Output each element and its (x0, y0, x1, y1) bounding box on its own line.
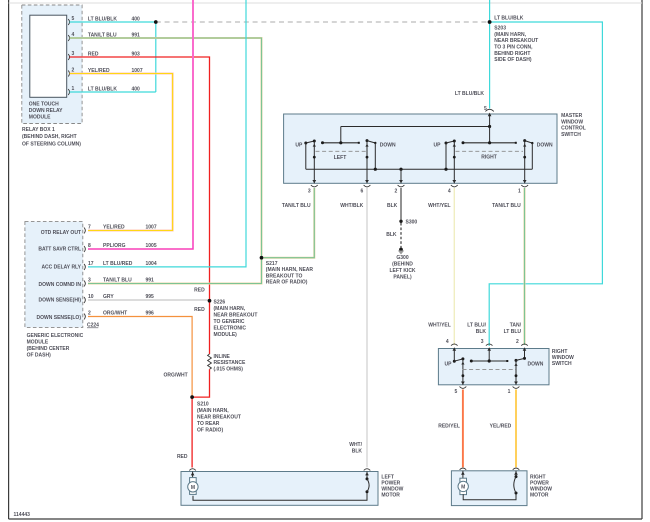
node S217 (260, 256, 314, 286)
right switch common bar (470, 359, 509, 362)
svg-text:1: 1 (72, 86, 75, 92)
resistor inline resistance .015 ohms (208, 354, 246, 372)
wire LT BLU/BLK 400 relay pin5 (70, 21, 156, 23)
svg-text:1: 1 (518, 189, 521, 195)
GEM dashed enclosure (25, 222, 99, 359)
wire RED S210 to left motor (191, 397, 193, 467)
node S203 (488, 16, 538, 64)
svg-text:UP: UP (434, 142, 442, 148)
svg-text:5: 5 (455, 389, 458, 395)
svg-text:4: 4 (448, 189, 451, 195)
wire LT BLU/BLK from offpage top to master pin5 (489, 0, 491, 109)
svg-text:GRY: GRY (103, 294, 114, 300)
MASTER WINDOW CONTROL SWITCH box (284, 113, 586, 183)
master left switch UP contact (295, 140, 315, 170)
master left switch DOWN contact (366, 139, 397, 169)
svg-text:3: 3 (308, 189, 311, 195)
svg-text:DOWN SENSE(HI): DOWN SENSE(HI) (39, 298, 82, 304)
node S226 (194, 288, 257, 338)
master pin 4 internal leg (453, 141, 456, 183)
GEM pin 3 DOWN COMND IN (39, 278, 155, 288)
master pin 3 internal leg (313, 141, 316, 183)
svg-text:MOTOR: MOTOR (530, 493, 549, 499)
svg-text:TO GENERIC: TO GENERIC (214, 319, 245, 325)
right switch pin 5 internal leg (461, 359, 464, 385)
svg-text:MASTER: MASTER (561, 113, 583, 119)
relay pin 4 (68, 32, 140, 41)
svg-text:WINDOW: WINDOW (561, 119, 583, 125)
svg-text:MODULE: MODULE (27, 340, 49, 346)
GEM pin 8 BATT SAVR CTRL (38, 243, 156, 252)
right switch UP contact (445, 357, 465, 367)
relay pin 5 (68, 16, 140, 25)
wire RED 903 relay pin3 to S226 (70, 57, 210, 301)
svg-text:BATT SAVR CTRL: BATT SAVR CTRL (38, 247, 81, 253)
svg-text:1005: 1005 (146, 243, 157, 249)
svg-text:ACC DELAY RLY: ACC DELAY RLY (41, 264, 81, 270)
svg-text:OF DASH): OF DASH) (27, 353, 51, 359)
master pin 6 internal leg (365, 141, 368, 184)
svg-text:UP: UP (445, 362, 453, 368)
RIGHT POWER WINDOW MOTOR box (451, 471, 552, 506)
svg-text:BLK: BLK (476, 329, 487, 335)
node S210 (164, 373, 241, 434)
svg-text:1: 1 (508, 389, 511, 395)
svg-text:TAN/: TAN/ (510, 323, 522, 329)
svg-text:TAN/LT BLU: TAN/LT BLU (103, 278, 132, 284)
svg-text:BLK: BLK (386, 232, 397, 238)
master internal feed bus from pin5 (341, 125, 491, 143)
master right switch UP contact (434, 140, 456, 170)
svg-text:1004: 1004 (146, 261, 157, 267)
GEM pin 17 ACC DELAY RLY (41, 261, 156, 270)
svg-text:5: 5 (72, 16, 75, 22)
svg-text:991: 991 (146, 278, 155, 284)
svg-text:RESISTANCE: RESISTANCE (214, 360, 247, 366)
right switch pin 2 entry connector (521, 344, 528, 358)
svg-text:WHT/YEL: WHT/YEL (428, 323, 451, 329)
svg-text:LT BLU/RED: LT BLU/RED (103, 261, 133, 267)
svg-text:OF STEERING COLUMN): OF STEERING COLUMN) (22, 141, 81, 147)
svg-text:6: 6 (361, 189, 364, 195)
svg-text:PPL/ORG: PPL/ORG (103, 243, 126, 249)
GEM pin 2 DOWN SENSE(LO) (37, 311, 155, 321)
svg-text:7: 7 (88, 225, 91, 231)
svg-text:(MAIN HARN,: (MAIN HARN, (197, 408, 229, 414)
svg-text:NEAR BREAKOUT: NEAR BREAKOUT (197, 415, 241, 421)
wire YEL/RED 1007 relay pin2 to GEM pin7 (70, 74, 173, 231)
svg-text:YEL/RED: YEL/RED (103, 225, 125, 231)
svg-text:BEHIND RIGHT: BEHIND RIGHT (494, 51, 530, 57)
svg-text:UP: UP (295, 142, 303, 148)
right motor redyel entry connector (460, 468, 467, 478)
svg-text:DOWN: DOWN (528, 362, 544, 368)
svg-text:(.015 OHMS): (.015 OHMS) (214, 366, 244, 372)
node S217 junction dot redraw (260, 256, 264, 260)
svg-text:RED: RED (194, 288, 205, 294)
svg-text:RIGHT: RIGHT (481, 155, 497, 161)
svg-text:(MAIN HARN,: (MAIN HARN, (214, 306, 246, 312)
RIGHT WINDOW SWITCH box (438, 349, 574, 385)
svg-text:S300: S300 (406, 219, 418, 225)
right switch pin 1 exit connector (508, 382, 520, 395)
wire GRY 995 GEM pin10 to S226 (88, 299, 210, 301)
svg-text:BREAKOUT TO: BREAKOUT TO (266, 273, 303, 279)
svg-text:1007: 1007 (146, 225, 157, 231)
svg-text:DOWN: DOWN (380, 142, 396, 148)
svg-text:(BEHIND DASH, RIGHT: (BEHIND DASH, RIGHT (22, 134, 77, 140)
svg-text:CONTROL: CONTROL (561, 126, 586, 132)
right motor internal wiring (463, 475, 517, 500)
svg-text:SWITCH: SWITCH (552, 361, 572, 367)
svg-text:10: 10 (88, 294, 94, 300)
wire dashed continuation of circuit 400 (156, 21, 490, 23)
wire LT BLU/BLK 400 vertical tie pin5-pin1 (155, 22, 157, 92)
svg-text:LT BLU/: LT BLU/ (467, 323, 486, 329)
right switch labels above pins (428, 323, 521, 346)
svg-text:995: 995 (146, 294, 155, 300)
svg-text:DOWN SENSE(LO): DOWN SENSE(LO) (37, 315, 82, 321)
svg-text:RED: RED (194, 307, 205, 313)
node S203 junction dot redraw (488, 20, 492, 24)
svg-text:(MAIN HARN,: (MAIN HARN, (494, 32, 526, 38)
svg-text:GENERIC ELECTRONIC: GENERIC ELECTRONIC (27, 333, 84, 339)
svg-text:RELAY BOX 1: RELAY BOX 1 (22, 127, 55, 133)
right switch pin 1 internal leg (514, 360, 517, 384)
svg-text:M: M (191, 485, 195, 491)
svg-text:INLINE: INLINE (214, 354, 231, 360)
svg-text:(BEHIND: (BEHIND (392, 262, 413, 268)
svg-text:LT BLU: LT BLU (504, 329, 522, 335)
svg-text:TO 3 PIN CONN,: TO 3 PIN CONN, (494, 45, 533, 51)
master pin 2 exit connector (387, 180, 404, 209)
wire WHT/BLK master pin6 to left motor (366, 188, 368, 467)
svg-text:MODULE: MODULE (29, 115, 51, 121)
wire TAN/LT BLU 991 relay pin4 to S217 (70, 38, 262, 258)
ground G300 (389, 248, 415, 281)
svg-text:MODULE): MODULE) (214, 332, 238, 338)
RELAY BOX 1 dashed enclosure (22, 5, 82, 124)
svg-text:S226: S226 (214, 299, 226, 305)
svg-text:LEFT: LEFT (334, 155, 347, 161)
svg-text:TAN/LT BLU: TAN/LT BLU (282, 203, 311, 209)
wire RED/YEL right switch pin5 to right motor (462, 390, 464, 468)
left motor M1 symbol (188, 478, 198, 495)
svg-text:WHT/BLK: WHT/BLK (340, 203, 363, 209)
svg-text:G300: G300 (396, 255, 408, 261)
svg-text:M: M (461, 485, 465, 491)
wire ORG/WHT 996 GEM pin2 to S210 (88, 317, 192, 398)
right switch mechanical link (463, 369, 517, 371)
svg-text:MOTOR: MOTOR (381, 493, 400, 499)
right switch pin 5 exit connector (455, 382, 467, 395)
master pin 5 entry connector (485, 109, 493, 126)
left motor internal wiring (193, 477, 369, 500)
right switch pin 3 entry connector (486, 344, 493, 361)
master right switch mechanical link (456, 151, 524, 160)
svg-text:3: 3 (481, 339, 484, 345)
master pin 6 exit connector (340, 180, 370, 209)
wire LT BLU/RED 1004 GEM pin17 going offpage top (88, 0, 246, 267)
master pin 1 internal leg (523, 141, 526, 184)
wire LT BLU/BLK 400 relay pin1 (70, 91, 156, 93)
wire BLK dashed S300 to G300 (400, 223, 402, 248)
right motor M2 symbol (458, 478, 468, 494)
svg-text:BLK: BLK (387, 203, 398, 209)
svg-text:NEAR BREAKOUT: NEAR BREAKOUT (494, 38, 538, 44)
svg-text:3: 3 (88, 278, 91, 284)
svg-text:REAR OF RADIO): REAR OF RADIO) (266, 280, 308, 286)
master ground bus (306, 168, 533, 171)
master right switch DOWN contact (523, 139, 553, 169)
right switch pin 4 entry connector (451, 344, 458, 361)
relay pin 3 (68, 51, 140, 60)
wire WHT/YEL master pin4 to right switch pin4 (453, 188, 455, 345)
svg-text:SIDE OF DASH): SIDE OF DASH) (494, 57, 532, 63)
svg-text:114443: 114443 (14, 512, 31, 518)
svg-text:4: 4 (446, 339, 449, 345)
master left switch mechanical link (316, 151, 367, 161)
right motor yelred entry connector (513, 468, 520, 477)
svg-text:LT BLU/BLK: LT BLU/BLK (494, 16, 523, 22)
svg-text:NEAR BREAKOUT: NEAR BREAKOUT (214, 312, 258, 318)
svg-text:(MAIN HARN, NEAR: (MAIN HARN, NEAR (266, 267, 314, 273)
GEM pin 7 OTD RELAY OUT (41, 225, 157, 236)
svg-text:2: 2 (88, 311, 91, 317)
svg-text:2: 2 (516, 339, 519, 345)
svg-text:TAN/LT BLU: TAN/LT BLU (492, 203, 521, 209)
svg-text:(BEHIND CENTER: (BEHIND CENTER (27, 346, 70, 352)
svg-text:SWITCH: SWITCH (561, 132, 581, 138)
master pin 3 exit connector (282, 180, 318, 209)
GEM pin 10 DOWN SENSE(HI) (39, 294, 155, 303)
svg-text:S203: S203 (494, 26, 506, 32)
relay pin 2 (68, 67, 143, 76)
master pin 2 internal leg (400, 169, 402, 183)
wire YEL/RED right switch pin1 to right motor (515, 390, 517, 468)
svg-text:OF RADIO): OF RADIO) (197, 428, 223, 434)
node splice on wire 400 (154, 20, 158, 24)
node splice 400 dot redraw (154, 20, 158, 24)
svg-text:8: 8 (88, 243, 91, 249)
one touch down relay module K1 (22, 15, 81, 147)
svg-text:TO REAR: TO REAR (197, 421, 220, 427)
LEFT POWER WINDOW MOTOR box (181, 472, 404, 506)
svg-text:3: 3 (72, 51, 75, 57)
svg-text:DOWN: DOWN (537, 142, 553, 148)
master right switch common bar (462, 141, 517, 144)
left motor whtblk entry connector (364, 469, 371, 479)
svg-text:2: 2 (395, 189, 398, 195)
svg-text:LT BLU/BLK: LT BLU/BLK (455, 91, 484, 97)
wire LT BLU/BLK S203 branch to right window switch pin3 (489, 22, 602, 346)
wire TAN/LT BLU 991 GEM pin3 to S217 (88, 258, 262, 284)
master pin 1 exit connector (492, 180, 528, 209)
svg-text:YEL/RED: YEL/RED (490, 423, 512, 429)
wire RED resistor to S210 (192, 369, 209, 397)
master pin 4 exit connector (428, 180, 458, 209)
svg-text:S210: S210 (197, 402, 209, 408)
node S300 (386, 219, 417, 238)
svg-text:WHT/: WHT/ (349, 442, 362, 448)
right switch DOWN contact (515, 357, 544, 368)
svg-text:ORG/WHT: ORG/WHT (103, 311, 127, 317)
svg-text:RED/YEL: RED/YEL (438, 423, 460, 429)
wire TAN/LT BLU master pin1 to right switch pin2 (524, 188, 526, 345)
svg-text:RIGHT: RIGHT (530, 474, 546, 480)
wire PPL/ORG 1005 GEM pin8 going offpage top (88, 0, 193, 249)
wire RED S226 down to resistor (209, 301, 211, 354)
svg-text:DOWN COMND IN: DOWN COMND IN (39, 282, 82, 288)
svg-text:LEFT KICK: LEFT KICK (389, 268, 415, 274)
svg-text:OTD RELAY OUT: OTD RELAY OUT (41, 230, 81, 236)
node S210 junction dot redraw (190, 395, 194, 399)
svg-text:ORG/WHT: ORG/WHT (164, 373, 188, 379)
wire BLK master pin2 to S300 (400, 188, 402, 221)
svg-text:17: 17 (88, 261, 94, 267)
relay pin 1 (68, 86, 140, 95)
svg-text:S217: S217 (266, 261, 278, 267)
master left switch common bar (321, 141, 360, 144)
svg-text:ONE TOUCH: ONE TOUCH (29, 101, 59, 107)
svg-text:RED: RED (177, 454, 188, 460)
node S226 junction dot redraw (208, 299, 212, 303)
svg-text:DOWN RELAY: DOWN RELAY (29, 108, 63, 114)
svg-text:ELECTRONIC: ELECTRONIC (214, 326, 247, 332)
wire TAN/LT BLU 991 S217 to master pin3 (262, 188, 315, 258)
svg-text:BLK: BLK (352, 449, 363, 455)
svg-text:WHT/YEL: WHT/YEL (428, 203, 451, 209)
left motor red entry connector (189, 469, 196, 478)
svg-text:996: 996 (146, 311, 155, 317)
svg-text:PANEL): PANEL) (393, 275, 412, 281)
